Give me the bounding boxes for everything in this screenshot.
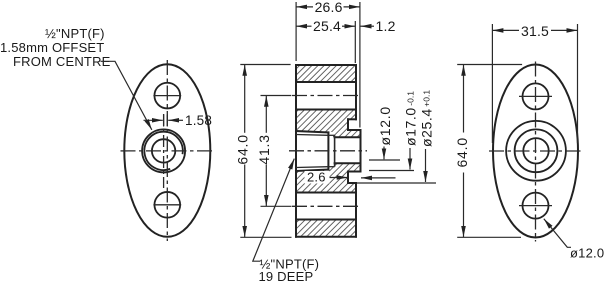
svg-text:25.4: 25.4 <box>313 18 341 34</box>
svg-text:41.3: 41.3 <box>256 134 272 164</box>
svg-text:ø12.0: ø12.0 <box>377 106 393 145</box>
svg-text:31.5: 31.5 <box>521 23 549 39</box>
svg-text:1.58mm OFFSET: 1.58mm OFFSET <box>0 40 104 55</box>
svg-text:1.2: 1.2 <box>376 18 396 34</box>
svg-text:2.6: 2.6 <box>307 170 326 185</box>
svg-text:ø25.4+0.1: ø25.4+0.1 <box>418 90 434 147</box>
svg-text:64.0: 64.0 <box>235 134 251 164</box>
svg-text:ø17.0-0.1: ø17.0-0.1 <box>403 91 419 146</box>
svg-text:64.0: 64.0 <box>454 137 470 167</box>
svg-text:ø12.0: ø12.0 <box>570 246 604 261</box>
svg-text:1.58: 1.58 <box>185 113 212 128</box>
svg-text:19 DEEP: 19 DEEP <box>259 269 314 282</box>
svg-text:26.6: 26.6 <box>315 0 343 15</box>
svg-text:FROM CENTRE: FROM CENTRE <box>13 54 111 69</box>
svg-text:½"NPT(F): ½"NPT(F) <box>45 26 105 41</box>
